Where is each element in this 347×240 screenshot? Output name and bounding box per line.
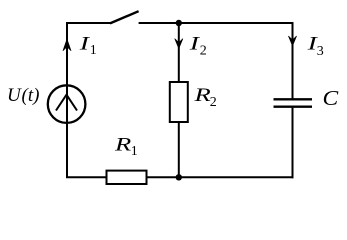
wire: left vertical branch	[66, 23, 68, 177]
svg-text:1: 1	[131, 144, 138, 159]
svg-text:I: I	[189, 33, 201, 54]
source U(t) arrow chevron	[56, 95, 77, 111]
node junction dot top (node a)	[176, 20, 182, 26]
current arrow I2 (down)	[175, 39, 183, 49]
switch S (open blade)	[110, 11, 139, 23]
svg-text:3: 3	[317, 44, 324, 59]
resistor R1	[107, 171, 147, 184]
current arrow I1 (up)	[63, 39, 71, 51]
svg-text:R: R	[114, 133, 131, 154]
wire: middle vertical branch (R2 to bottom node)	[178, 122, 180, 177]
svg-text:2: 2	[210, 95, 217, 110]
svg-text:2: 2	[200, 44, 207, 59]
wire: middle vertical branch (node to R2)	[178, 23, 180, 83]
svg-text:1: 1	[90, 43, 97, 58]
svg-text:R: R	[193, 84, 210, 105]
svg-text:(t): (t)	[22, 85, 40, 106]
resistor R2	[170, 82, 188, 122]
current arrow I3 (down)	[288, 36, 296, 46]
svg-text:I: I	[79, 33, 91, 54]
source U(t) circle	[48, 85, 86, 123]
svg-text:U: U	[7, 85, 22, 106]
wire: top horizontal right segment	[139, 22, 294, 24]
wire: bottom horizontal left segment	[66, 176, 107, 178]
wire: right vertical branch (top corner to capacitor)	[292, 22, 294, 99]
wire: top horizontal left segment	[66, 22, 111, 24]
wire: right vertical branch (capacitor to bottom corner)	[292, 107, 294, 179]
wire: bottom horizontal right segment	[147, 176, 294, 178]
node junction dot bottom (node b)	[176, 174, 182, 180]
capacitor C	[274, 99, 313, 106]
svg-text:C: C	[323, 86, 340, 110]
